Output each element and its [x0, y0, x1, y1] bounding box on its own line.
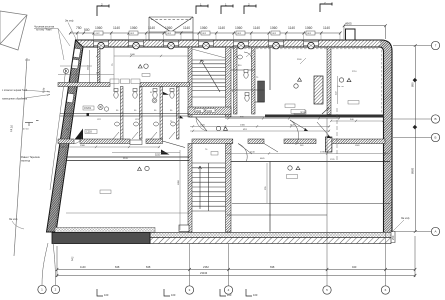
- room tags row: [110, 79, 140, 84]
- svg-text:См. эл: См. эл: [337, 86, 344, 88]
- chimney: [346, 29, 356, 40]
- marker corridor: [216, 126, 227, 130]
- leader curves to left bottom bubbles: [42, 243, 56, 285]
- shaft dark rect: [258, 81, 265, 102]
- svg-text:1128: 1128: [310, 117, 315, 119]
- corridor door leaf and wedge: [163, 141, 186, 148]
- bottom grid bubbles: [38, 285, 390, 294]
- top wall: [76, 40, 382, 47]
- left room dim vertical: [60, 50, 92, 84]
- middle rooms verticals: [234, 47, 332, 115]
- left leader note: cast iron grate: [34, 26, 55, 32]
- svg-text:1140: 1140: [288, 26, 295, 30]
- svg-text:100: 100: [253, 293, 258, 297]
- svg-text:1060: 1060: [305, 26, 313, 30]
- svg-text:848: 848: [146, 265, 151, 269]
- marker bottom hall: [288, 166, 300, 170]
- svg-text:с отметки черная Тной: с отметки черная Тной: [2, 89, 28, 92]
- upper room leader marks: [246, 50, 306, 64]
- svg-text:1140: 1140: [80, 265, 86, 269]
- corridor north wall right part: [192, 139, 385, 144]
- adjacent building outline: [0, 11, 27, 50]
- dim extension lines: [78, 33, 341, 40]
- svg-text:1060: 1060: [165, 26, 173, 30]
- svg-text:1060: 1060: [235, 26, 243, 30]
- room tag C203: [85, 130, 97, 134]
- upper stair landing diagonal: [192, 49, 226, 58]
- dashed axis x337: [336, 108, 338, 160]
- svg-text:Зм элф: Зм элф: [65, 20, 73, 23]
- corridor south lines: [66, 157, 390, 162]
- svg-text:750: 750: [76, 26, 82, 30]
- svg-text:2580: 2580: [80, 145, 86, 147]
- right grid bubble lines: [393, 46, 431, 232]
- bottom hall partition and lines: [269, 162, 271, 232]
- corridor door arcs: [74, 120, 305, 161]
- svg-text:Зм элф: Зм элф: [9, 218, 17, 221]
- svg-text:250: 250: [391, 235, 395, 240]
- insulation dashed line top/right: [232, 49, 382, 114]
- benchmark level mark: [25, 121, 39, 127]
- top-right rounded corner and right wall: [379, 40, 392, 232]
- svg-text:100: 100: [227, 293, 232, 297]
- marker middle room: [294, 78, 302, 88]
- svg-text:100: 100: [171, 293, 176, 297]
- svg-text:500: 500: [84, 28, 90, 32]
- door wedges: [304, 128, 308, 131]
- svg-text:3120: 3120: [123, 158, 129, 160]
- entrance canopy: [149, 17, 193, 40]
- corridor dark north wall upper (x265-383): [265, 115, 384, 118]
- svg-text:ПР203: ПР203: [300, 112, 307, 114]
- svg-text:Зм элф: Зм элф: [401, 217, 409, 220]
- hall tag box: [211, 152, 218, 156]
- svg-text:1300: 1300: [207, 110, 213, 113]
- stair base pilaster: [179, 225, 189, 232]
- svg-text:С203: С203: [86, 131, 92, 134]
- window tag boxes: [94, 31, 315, 35]
- bottom-right wall corner detail: [391, 232, 395, 243]
- dimension 4905: [344, 26, 386, 39]
- svg-text:1140: 1140: [183, 26, 190, 30]
- grid axes below building: [190, 232, 386, 286]
- svg-text:1140: 1140: [218, 26, 225, 30]
- svg-text:47.10: 47.10: [23, 129, 29, 131]
- ramp wedge: [75, 129, 84, 140]
- duct at hall top: [325, 137, 332, 152]
- svg-text:940: 940: [352, 265, 357, 269]
- middle rooms fixtures: [238, 55, 250, 101]
- corridor north wall (hatched segments with doors): [58, 139, 163, 144]
- marker big left room: [138, 166, 150, 170]
- left slanted wall: [47, 40, 84, 232]
- svg-text:переезд: переезд: [21, 160, 31, 163]
- door arcs small rooms: [113, 132, 175, 139]
- bottom dimension lines: [57, 236, 415, 277]
- bottom section flags: [97, 289, 252, 296]
- svg-text:Б: Б: [435, 136, 437, 140]
- top dimension chain: [70, 32, 340, 34]
- svg-text:14.10: 14.10: [9, 124, 14, 132]
- interior dim ticks: [62, 55, 386, 155]
- WC fixtures row1: [114, 89, 174, 99]
- bottom wall: [52, 233, 391, 244]
- svg-text:2110: 2110: [88, 65, 90, 70]
- top wall windows: [94, 42, 319, 46]
- right grid bubbles: [431, 41, 439, 235]
- svg-text:по типу "Ромб": по типу "Ромб": [36, 29, 53, 32]
- left note lower: [21, 156, 41, 163]
- svg-text:1520: 1520: [200, 125, 206, 127]
- svg-text:1060: 1060: [130, 26, 138, 30]
- svg-text:1060: 1060: [200, 26, 208, 30]
- svg-text:2362: 2362: [203, 265, 209, 269]
- door top-right room: [322, 108, 329, 115]
- svg-text:848: 848: [115, 265, 120, 269]
- stair shaft right wall: [226, 47, 232, 232]
- right dimension line: [414, 46, 416, 232]
- window column circles: [98, 42, 315, 49]
- svg-text:помещение обработка: помещение обработка: [2, 98, 28, 101]
- svg-text:1890: 1890: [178, 179, 180, 185]
- svg-text:1140: 1140: [323, 26, 330, 30]
- lintel tag on corridor wall: [130, 140, 142, 145]
- svg-text:698: 698: [270, 265, 275, 269]
- scattered tiny labels: [66, 59, 360, 161]
- upper stair: [192, 60, 226, 97]
- label boxes: [142, 74, 150, 77]
- stall dim labels: [116, 110, 173, 112]
- windows on slanted wall: [67, 48, 81, 103]
- bottom wall sidewalk strip: [55, 228, 155, 233]
- svg-text:СУ201: СУ201: [84, 107, 92, 110]
- svg-text:1140: 1140: [148, 26, 155, 30]
- svg-text:В: В: [434, 117, 436, 121]
- marker top-left room: [138, 64, 148, 68]
- svg-text:4905: 4905: [345, 22, 352, 26]
- svg-text:100: 100: [104, 293, 109, 297]
- site boundary line: [14, 58, 30, 256]
- lower stair: [192, 163, 226, 211]
- left block clutter: [163, 92, 169, 95]
- svg-text:1060: 1060: [270, 26, 278, 30]
- mid horizontal wall in small rooms: [60, 114, 190, 117]
- grid axis x327: [326, 118, 328, 244]
- svg-text:А: А: [434, 230, 436, 234]
- fixtures row2 sinks: [115, 122, 176, 126]
- duct/radiator rect: [314, 76, 323, 104]
- stair dim labels: [195, 109, 204, 113]
- corridor doors right part: [238, 52, 331, 154]
- small rooms verticals (upper-left block): [121, 87, 180, 140]
- svg-text:1140: 1140: [113, 26, 120, 30]
- stair shaft left wall: [188, 47, 192, 232]
- svg-text:8985: 8985: [411, 167, 415, 174]
- marker top-right room: [339, 78, 351, 82]
- top section flags: [97, 3, 332, 17]
- corridor door near stair: [196, 118, 207, 132]
- small circles left room: [63, 68, 108, 111]
- room tag СУ201: [83, 106, 94, 110]
- stair mid wall: [188, 107, 231, 115]
- left leader notes middle: [2, 89, 28, 101]
- svg-text:23343: 23343: [200, 271, 208, 275]
- svg-text:5230: 5230: [155, 154, 161, 157]
- svg-text:1060: 1060: [95, 26, 103, 30]
- interior dim rows: [58, 47, 390, 230]
- svg-text:1140: 1140: [253, 26, 260, 30]
- svg-text:1520: 1520: [196, 110, 202, 113]
- horizontal wall under top-left room: [58, 83, 110, 87]
- svg-text:1300: 1300: [240, 125, 246, 127]
- middle rooms horizontals: [231, 70, 265, 102]
- svg-text:890: 890: [411, 82, 415, 87]
- svg-text:1745: 1745: [320, 152, 326, 154]
- partition: top-left room left wall: [98, 47, 101, 83]
- thin partition x270: [269, 47, 271, 90]
